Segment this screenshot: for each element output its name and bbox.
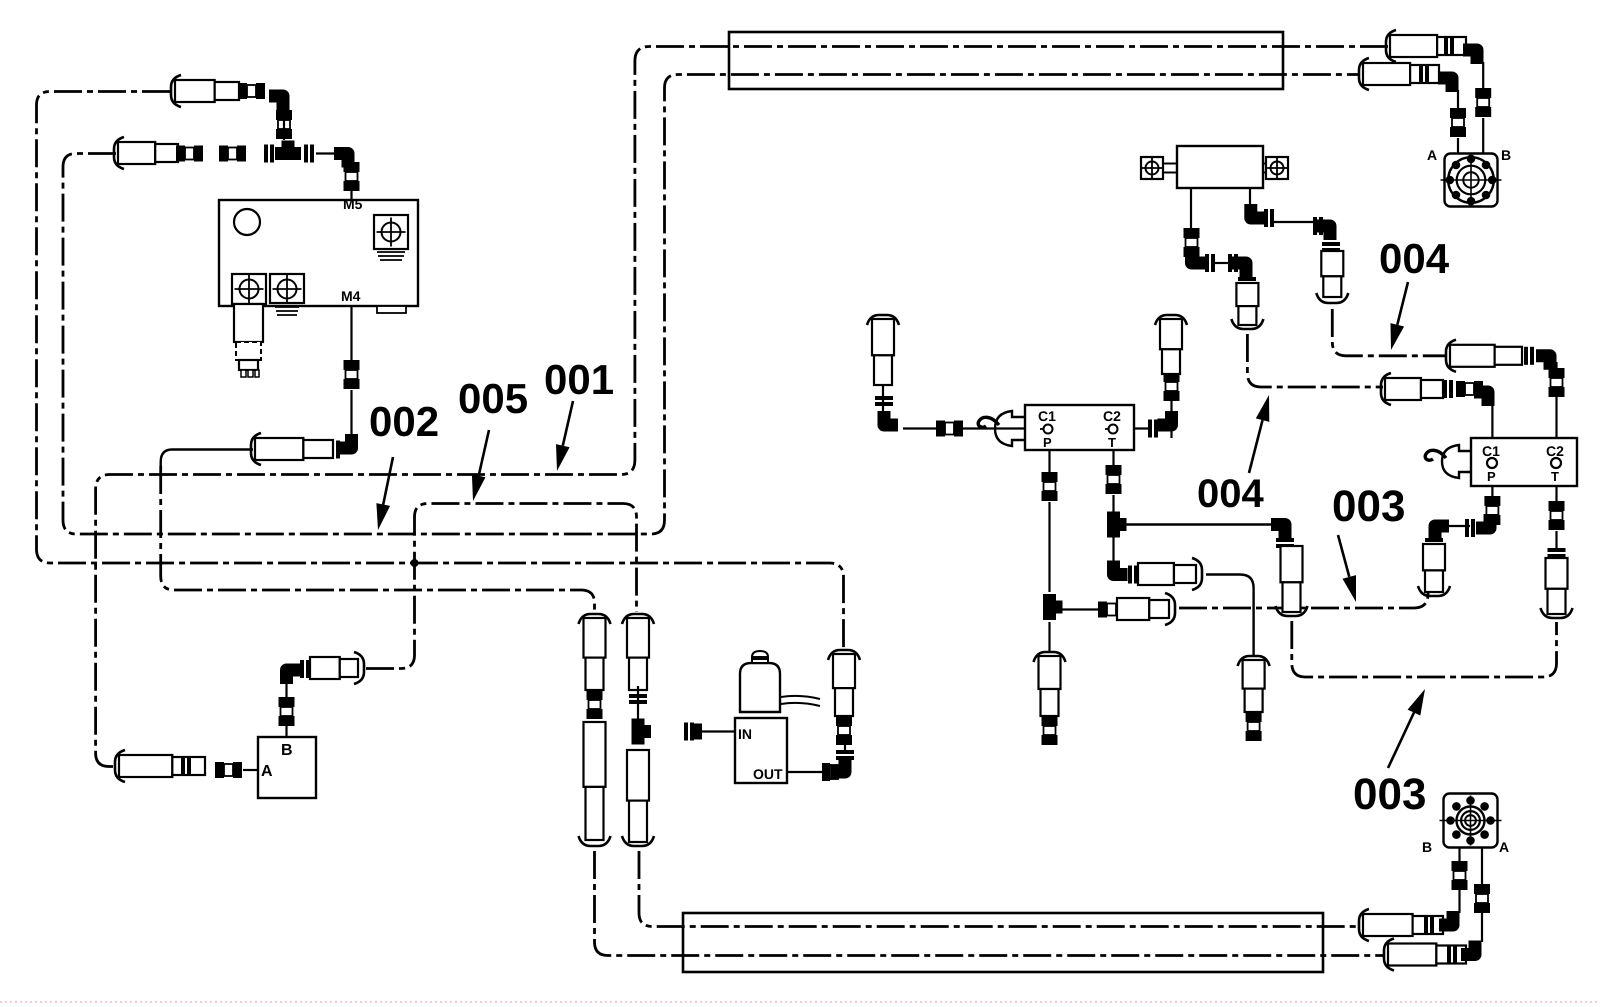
hose assembly (bottom run upper) (1359, 909, 1369, 941)
elbow fitting (1251, 204, 1265, 218)
wire (285, 684, 287, 697)
wire (283, 120, 285, 140)
elbow fitting (269, 96, 283, 110)
port circle (1551, 458, 1561, 468)
hose assembly (to OUT) (828, 650, 860, 660)
collar (629, 694, 647, 698)
wire (1170, 330, 1172, 438)
svg-text:C1: C1 (1482, 443, 1500, 459)
wire (1491, 486, 1493, 498)
wire (1249, 188, 1251, 205)
elbow fitting (831, 758, 845, 772)
wire (1215, 262, 1228, 264)
wire tube: M5 tee to solenoid OUT (left outer loop) (37, 92, 844, 651)
wire (637, 686, 639, 722)
tee fitting (T) (1107, 512, 1120, 538)
wire to M5 (350, 186, 352, 201)
port circle (1487, 458, 1497, 468)
svg-text:P: P (1043, 435, 1052, 450)
hose assembly (top-left lower) (114, 137, 124, 169)
tee fitting (275, 147, 301, 160)
union fitting (end) (1042, 716, 1058, 726)
solenoid wires (781, 696, 820, 699)
union fitting (1456, 381, 1465, 397)
collar (1128, 566, 1132, 584)
arrow 003 (bottom) (1388, 713, 1414, 769)
elbow fitting (1476, 514, 1490, 528)
union fitting (1475, 88, 1491, 98)
collar (1447, 946, 1451, 964)
arrow 003 (top) (1338, 535, 1349, 577)
wire tube: x=160.7 drop and y=590 run (161, 466, 595, 612)
union fitting (587, 690, 603, 700)
wire (1048, 622, 1050, 652)
union fitting (end) (1246, 712, 1262, 722)
hose assembly (T branch) (1138, 563, 1174, 585)
fitting (684, 723, 688, 741)
wire (285, 724, 287, 737)
manifold port block (left) (232, 274, 266, 304)
wire (T to drop hose) (1126, 523, 1272, 525)
collar (181, 757, 185, 775)
svg-text:A: A (261, 763, 273, 780)
hose assembly (bottom run lower) (1384, 939, 1394, 971)
collar (1419, 65, 1423, 83)
elbow fitting (1461, 941, 1475, 955)
collar (875, 396, 893, 400)
valve block (left) (1025, 405, 1134, 450)
svg-text:P: P (1487, 469, 1496, 484)
wire (1555, 531, 1557, 548)
relief valve body (234, 304, 263, 342)
hose assembly (left chain upper) (579, 614, 611, 624)
elbow fitting (1316, 226, 1330, 240)
hose assembly (A port) (115, 750, 125, 782)
union fitting (219, 146, 228, 162)
solenoid valve body (735, 718, 787, 783)
gear motor (bottom) (1444, 794, 1498, 848)
svg-text:B: B (1501, 147, 1511, 163)
thread lines (377, 251, 405, 253)
union fitting (344, 162, 360, 172)
svg-text:B: B (281, 742, 293, 759)
wire tube 003: left block T to right block T (1292, 621, 1557, 677)
svg-text:C2: C2 (1103, 408, 1121, 424)
svg-text:003: 003 (1353, 770, 1426, 819)
wire (1274, 221, 1313, 223)
wire (1112, 495, 1114, 512)
wire (316, 152, 334, 154)
wire (1458, 890, 1460, 913)
union fitting (822, 763, 830, 781)
wire (P link) (1447, 525, 1470, 527)
collar (1524, 347, 1528, 365)
wire to IN (702, 730, 735, 732)
wire (1555, 486, 1557, 503)
wire (243, 769, 258, 771)
svg-text:OUT: OUT (753, 766, 783, 782)
tee fitting (to IN) (632, 719, 645, 745)
collar (1465, 519, 1469, 537)
hose assembly (C2 feed) (1446, 340, 1456, 372)
svg-text:T: T (1108, 435, 1116, 450)
hose assembly (return drop) (1238, 656, 1270, 666)
svg-text:A: A (1427, 147, 1437, 163)
hose assembly (left drop) (1236, 283, 1258, 306)
junction node (411, 559, 419, 567)
elbow fitting (884, 411, 898, 425)
svg-text:B: B (1422, 839, 1432, 855)
wire (882, 330, 884, 425)
collar (1148, 420, 1152, 438)
union fitting (1106, 465, 1122, 475)
elbow fitting (338, 434, 352, 448)
solenoid top button (752, 651, 768, 663)
svg-text:C2: C2 (1546, 443, 1564, 459)
wire tube: lower cylinder line to bottom motor A (595, 851, 1386, 956)
hydraulic tube bundle (top) (729, 32, 1283, 89)
union fitting (1484, 496, 1500, 506)
wire (1555, 362, 1557, 438)
hose assembly (P drop right) (1423, 544, 1445, 570)
elbow fitting (to M5) (334, 154, 348, 168)
elbow fitting (1474, 392, 1488, 406)
arrow 004 (mid) (1249, 420, 1263, 473)
wire (903, 427, 936, 429)
valve lever (1442, 445, 1471, 478)
hose assembly (right chain lower) (627, 750, 649, 801)
page edge artifact (0, 1001, 1600, 1003)
collar (1444, 37, 1448, 55)
wire (1482, 62, 1484, 90)
hose assembly (right chain upper) (622, 614, 654, 624)
wire tube: upper cylinder line to bottom motor B (639, 851, 1360, 927)
elbow fitting (1192, 249, 1206, 263)
wire (1048, 450, 1050, 472)
wire from M4 (350, 306, 352, 360)
thread lines (275, 306, 299, 308)
manifold port block (right) (270, 274, 304, 303)
collar (1548, 548, 1566, 552)
solenoid coil (740, 663, 780, 712)
valve block (right) (1471, 438, 1577, 486)
union fitting (215, 762, 224, 778)
component box A/B (258, 737, 316, 798)
hose assembly (C1 drop) (867, 315, 899, 325)
collar (836, 750, 854, 754)
hose assembly (T drop right) (1546, 558, 1568, 589)
manifold port block M5 (374, 215, 408, 249)
arrow 001 (563, 401, 573, 446)
union fitting (1450, 108, 1466, 118)
collar (1238, 277, 1256, 281)
accumulator body (1177, 146, 1263, 188)
collar (1313, 217, 1317, 235)
wire (1048, 502, 1050, 592)
hose assembly (top run upper) (1386, 30, 1396, 62)
manifold bore circle (234, 209, 260, 235)
hose assembly (C1 feed) (1381, 373, 1391, 405)
wire tube: M4 hose to left vertical hose chain (161, 450, 253, 473)
svg-text:M4: M4 (341, 288, 361, 304)
elbow fitting (1158, 411, 1172, 425)
collar (1276, 538, 1294, 542)
wire (1481, 848, 1483, 884)
elbow fitting (1463, 50, 1477, 64)
svg-text:004: 004 (1197, 472, 1264, 516)
union fitting (238, 83, 247, 99)
hose assembly (003 drop) (1281, 546, 1303, 582)
collar (1424, 916, 1428, 934)
arrow 004 (top) (1397, 282, 1408, 325)
svg-text:002: 002 (369, 398, 439, 445)
hose assembly (P branch) (1117, 598, 1149, 620)
elbow fitting (1439, 911, 1453, 925)
mount ear right (1266, 157, 1288, 179)
svg-text:C1: C1 (1038, 408, 1056, 424)
union fitting (1474, 884, 1490, 894)
arrow 005 (479, 430, 489, 476)
union fitting (below elbow) (276, 110, 292, 120)
elbow fitting (1438, 78, 1452, 92)
gear motor (top) (1445, 154, 1498, 207)
wire tube 002: M5 tee to top motor port A (63, 75, 1360, 535)
port circle C2 (1109, 425, 1118, 434)
svg-text:005: 005 (458, 375, 528, 422)
union fitting (1164, 372, 1180, 382)
valve lever (995, 411, 1025, 446)
svg-text:A: A (1499, 839, 1509, 855)
wire (962, 427, 1025, 429)
wire tube 004: accumulator left branch to right block C1 (1247, 334, 1383, 387)
wire (1134, 427, 1152, 429)
wire (1190, 188, 1192, 232)
hose assembly (top-left upper) (171, 75, 181, 107)
wire (844, 735, 846, 750)
mount ear left (1141, 157, 1163, 179)
hose assembly (M4 feed) (251, 433, 261, 465)
wire (1112, 450, 1114, 465)
union fitting (1549, 368, 1565, 378)
union fitting (1452, 861, 1468, 871)
hose assembly (P drop) (1034, 652, 1066, 662)
arrow 002 (383, 457, 393, 505)
elbow fitting (1271, 525, 1285, 539)
elbow fitting (287, 670, 301, 684)
collar (1443, 380, 1447, 398)
hose assembly (top run lower) (1359, 58, 1369, 90)
wire (1112, 537, 1114, 562)
union fitting (1042, 472, 1058, 482)
svg-text:001: 001 (544, 356, 614, 403)
collar (1205, 254, 1209, 272)
collar (1425, 538, 1443, 542)
svg-text:IN: IN (738, 726, 752, 742)
wire (1062, 608, 1098, 610)
manifold block (219, 200, 418, 306)
union fitting (1549, 501, 1565, 511)
hydraulic tube bundle (bottom) (683, 913, 1323, 972)
union fitting (936, 421, 945, 437)
collar (1228, 254, 1232, 272)
svg-text:T: T (1551, 469, 1559, 484)
union fitting (1184, 228, 1200, 238)
elbow fitting (1114, 561, 1128, 575)
wire (1457, 138, 1459, 153)
elbow fitting (1232, 263, 1246, 277)
hose assembly (left chain lower) (584, 722, 606, 787)
union fitting (836, 716, 852, 726)
wire tube 004: accumulator right branch to right block C2 (1332, 309, 1447, 356)
svg-text:003: 003 (1332, 482, 1405, 531)
union fitting (176, 146, 185, 162)
collar (1264, 209, 1268, 227)
hose assembly (B port) (310, 657, 340, 679)
collar (330, 441, 334, 459)
tee fitting (P) (1043, 594, 1056, 620)
wire (1482, 118, 1484, 153)
hose assembly (C2 drop) (1155, 315, 1187, 325)
wire (1457, 90, 1459, 110)
wire (1491, 404, 1493, 438)
relief valve teeth (241, 370, 246, 377)
wire tube 005: bottom box port B to solenoid IN branch (366, 504, 637, 669)
wire from OUT (787, 771, 822, 773)
svg-text:M5: M5 (343, 196, 363, 212)
collar (300, 660, 304, 678)
union fitting (344, 360, 360, 370)
svg-text:004: 004 (1379, 235, 1450, 282)
elbow fitting (1435, 526, 1449, 540)
wire tube 003: left block P to right block P (1179, 590, 1428, 608)
union fitting (279, 697, 295, 707)
hose assembly (right drop) (1321, 251, 1343, 276)
wire (1481, 912, 1483, 942)
port circle C1 (1044, 425, 1053, 434)
collar (1322, 242, 1340, 246)
wire (1458, 848, 1460, 861)
wire (1206, 575, 1254, 657)
union fitting (1098, 602, 1107, 618)
wire (350, 390, 352, 434)
manifold foot (377, 306, 406, 313)
wire tube 001: bottom box port A to top motor port B (96, 47, 1388, 767)
elbow fitting (1536, 356, 1550, 370)
